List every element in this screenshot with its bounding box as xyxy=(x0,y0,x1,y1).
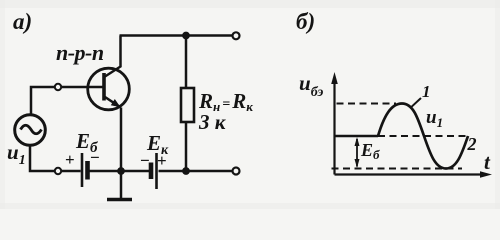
transistor collector lead xyxy=(105,36,121,77)
resistor Rn=Rk body xyxy=(181,88,194,122)
svg-text:а): а) xyxy=(13,9,32,34)
wire Eb to Ek xyxy=(90,170,150,173)
junction top node xyxy=(183,32,190,39)
junction emitter node xyxy=(118,168,125,175)
wire top rail xyxy=(120,34,233,37)
battery Eb long plate xyxy=(81,153,84,187)
svg-text:3 к: 3 к xyxy=(198,110,227,134)
wire emitter down xyxy=(120,108,123,172)
battery Ek short plate xyxy=(149,163,154,180)
input terminal node xyxy=(55,84,61,90)
battery Eb short plate xyxy=(85,161,90,180)
wire Ek to output xyxy=(159,170,233,173)
svg-text:+: + xyxy=(157,151,167,170)
battery Ek long plate xyxy=(155,153,158,189)
svg-text:−: − xyxy=(140,151,150,170)
transistor base bar xyxy=(102,73,106,101)
wire resistor top lead xyxy=(185,36,188,89)
svg-text:+: + xyxy=(65,150,75,169)
bias level solid xyxy=(335,135,379,138)
ground xyxy=(120,171,123,199)
generator sine symbol xyxy=(21,125,42,134)
svg-text:1: 1 xyxy=(422,82,431,101)
axis y xyxy=(333,78,335,175)
axis t xyxy=(335,173,487,175)
junction bottom node xyxy=(183,168,190,175)
output terminal bottom xyxy=(233,168,240,175)
wire generator to bottom rail xyxy=(30,145,81,171)
svg-text:б): б) xyxy=(296,9,315,34)
generator G1 circle xyxy=(15,115,46,146)
dimension arrow Eb xyxy=(356,139,358,167)
wire base lead xyxy=(31,87,103,115)
dashed bias level xyxy=(378,135,468,137)
svg-text:2: 2 xyxy=(467,134,477,154)
svg-text:−: − xyxy=(90,148,100,167)
output terminal top xyxy=(233,32,240,39)
svg-text:n-p-n: n-p-n xyxy=(56,40,104,65)
transistor VT1 circle xyxy=(88,68,130,110)
input terminal bottom node xyxy=(55,168,61,174)
dashed peak level xyxy=(337,103,397,105)
transistor emitter lead with arrow xyxy=(105,97,119,106)
curve u_be sine xyxy=(378,104,468,169)
dashed trough level xyxy=(332,168,463,170)
wire resistor bottom lead xyxy=(185,122,188,171)
